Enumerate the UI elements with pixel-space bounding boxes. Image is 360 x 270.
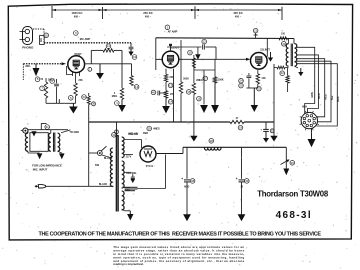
top bus wire B+ bbox=[156, 37, 294, 40]
node 10 bbox=[44, 33, 49, 38]
wire y70 tie bbox=[194, 69, 215, 71]
node 39 bbox=[245, 179, 250, 184]
T2 HV lead to rectifier bbox=[124, 139, 142, 141]
svg-text:13: 13 bbox=[169, 83, 173, 87]
svg-text:33: 33 bbox=[82, 95, 86, 99]
svg-text:250 KC: 250 KC bbox=[143, 11, 152, 15]
ground near mic label bbox=[35, 64, 37, 68]
node 7 bbox=[40, 86, 45, 91]
svg-text:+: + bbox=[236, 177, 238, 181]
avc arrow on grid wire bbox=[197, 47, 199, 54]
small cap arrow bbox=[132, 172, 134, 176]
pickup coil bbox=[25, 133, 28, 151]
wire plate V1 up to resistor R5 bbox=[122, 63, 132, 65]
svg-text:28: 28 bbox=[210, 139, 214, 143]
main mid bus bbox=[89, 121, 230, 123]
dimension tick 4 bbox=[281, 7, 283, 20]
svg-text:26: 26 bbox=[291, 161, 295, 165]
resistor R5 bbox=[130, 76, 133, 86]
V2 grid cap stub bbox=[170, 45, 172, 51]
T3 bottom leads bbox=[295, 66, 299, 68]
svg-text:117V: 117V bbox=[126, 155, 132, 158]
filter cap lead 2 bbox=[241, 147, 243, 179]
speaker cable wire 5 bbox=[297, 64, 338, 126]
resistor R3 in box top bbox=[103, 49, 114, 52]
resistor 250K bbox=[214, 59, 216, 77]
dimension tick 2 bbox=[102, 7, 104, 19]
resistor 12K bbox=[256, 74, 259, 84]
tube socket V5 6L6 bbox=[301, 112, 317, 128]
label AF AMP bbox=[165, 25, 170, 30]
svg-text:17: 17 bbox=[204, 76, 208, 80]
ground G16 bbox=[238, 214, 246, 221]
dimension tick 1 bbox=[51, 6, 53, 18]
volume control jack bbox=[23, 128, 28, 133]
node 26 bbox=[290, 161, 295, 166]
svg-text:100: 100 bbox=[281, 32, 286, 35]
svg-text:+: + bbox=[181, 177, 183, 181]
svg-text:10: 10 bbox=[188, 51, 192, 55]
svg-text:MC AMP: MC AMP bbox=[80, 37, 91, 41]
coupling box bbox=[91, 49, 103, 51]
wire V2 plate down to bus bbox=[173, 69, 175, 122]
node 13 bbox=[168, 83, 173, 88]
svg-text:25K: 25K bbox=[78, 79, 83, 82]
grid shielded lead to V1 bbox=[23, 63, 62, 65]
power switch SW bbox=[97, 151, 102, 156]
ground arrow G9 below bus bbox=[193, 122, 195, 136]
alignment dimension line bbox=[52, 9, 282, 11]
mic input wire bbox=[46, 185, 114, 187]
svg-text:600 ~: 600 ~ bbox=[74, 15, 81, 18]
tube V3 12L8GT bbox=[250, 53, 267, 70]
speaker cable wire 3 bbox=[297, 59, 325, 117]
T1 bottom leads with grounds bbox=[27, 151, 29, 153]
tube V1 6SQ7 bbox=[68, 56, 85, 73]
output transformer T3 bbox=[286, 44, 288, 67]
svg-text:20: 20 bbox=[282, 42, 286, 46]
wire V1 plate to coupling box bbox=[85, 63, 122, 65]
small ground arrow on line bbox=[31, 131, 36, 136]
resistor divider upper bbox=[192, 58, 195, 68]
shield box bbox=[30, 133, 48, 152]
cathode chain V2: resistor 20K bbox=[165, 69, 167, 75]
node 29 bbox=[147, 126, 152, 131]
svg-text:12L8GT: 12L8GT bbox=[260, 48, 270, 52]
resistor R4 4MEG bbox=[120, 88, 123, 100]
svg-text:6SQ7: 6SQ7 bbox=[74, 52, 82, 56]
svg-text:THE COOPERATION OF THE MANUFAC: THE COOPERATION OF THE MANUFACTURER OF T… bbox=[39, 232, 322, 238]
node 31 bbox=[45, 125, 50, 130]
node 9 bbox=[74, 31, 79, 36]
pot output line bbox=[28, 129, 68, 131]
node 16 bbox=[197, 96, 202, 101]
svg-text:250: 250 bbox=[170, 93, 175, 96]
shielded wire from phono bbox=[33, 28, 44, 30]
T1 core bbox=[53, 133, 55, 152]
heater wire loop bbox=[165, 155, 167, 189]
svg-text:22: 22 bbox=[281, 71, 285, 75]
cathode return bus of V1 bbox=[46, 102, 76, 104]
svg-text:16: 16 bbox=[197, 97, 201, 101]
node 30 and 2ND AF label bbox=[112, 133, 117, 138]
shield box label bbox=[40, 36, 45, 45]
ground G3 bbox=[99, 64, 101, 73]
svg-text:15: 15 bbox=[187, 90, 191, 94]
svg-text:455 KC: 455 KC bbox=[233, 11, 242, 15]
svg-text:11: 11 bbox=[107, 44, 110, 48]
power transformer T2 core bbox=[115, 135, 117, 212]
nodes 24 25 bbox=[239, 78, 244, 83]
svg-text:2MEG: 2MEG bbox=[196, 79, 203, 82]
svg-text:31: 31 bbox=[46, 125, 50, 129]
svg-text:1M: 1M bbox=[40, 39, 43, 42]
node 17 bbox=[203, 76, 208, 81]
node 6 bbox=[50, 79, 55, 84]
resistor 2MEG bbox=[193, 55, 195, 83]
svg-text:12: 12 bbox=[203, 40, 207, 44]
bleeder tap right bbox=[285, 147, 287, 168]
T1 top leads bbox=[50, 130, 52, 133]
ground arrow at shield end bbox=[130, 49, 132, 52]
node 38 bbox=[190, 179, 195, 184]
node 12 bbox=[202, 39, 207, 44]
svg-text:25: 25 bbox=[239, 84, 243, 88]
node 8 bbox=[35, 77, 40, 82]
wire bus down to mic line bbox=[88, 105, 90, 187]
T1 primary winding bbox=[49, 133, 51, 151]
svg-text:GRN: GRN bbox=[311, 92, 314, 98]
node 11 on box bbox=[106, 44, 111, 49]
svg-text:RED: RED bbox=[143, 132, 148, 135]
variable tap arrow bbox=[281, 160, 289, 165]
svg-text:10: 10 bbox=[45, 33, 49, 37]
resistor network below: 500K bbox=[180, 40, 182, 82]
resistor R2 25K bbox=[75, 74, 77, 84]
capacitor at shield end bbox=[130, 43, 132, 47]
T1 secondary winding bbox=[58, 133, 60, 151]
svg-text:MIC. INPUT: MIC. INPUT bbox=[33, 167, 48, 171]
node 19 bbox=[238, 125, 243, 130]
wire down to V2 bbox=[155, 38, 157, 70]
svg-text:RED-YEL: RED-YEL bbox=[126, 172, 137, 175]
cap with ground off bus bbox=[265, 122, 267, 129]
ground G6 bbox=[203, 70, 205, 105]
svg-text:reading is impractical.: reading is impractical. bbox=[113, 262, 144, 266]
svg-text:TO GND: TO GND bbox=[69, 131, 79, 134]
coupling capacitor C4 bbox=[167, 46, 202, 48]
tube V2 12J5GT bbox=[162, 51, 179, 68]
svg-text:14: 14 bbox=[169, 100, 173, 104]
node 13a bbox=[134, 85, 139, 90]
svg-text:29: 29 bbox=[148, 127, 152, 131]
speaker cable wire 4 bbox=[297, 61, 331, 122]
bypass caps V2 bbox=[157, 91, 159, 96]
node 15 bbox=[187, 90, 192, 95]
svg-text:21: 21 bbox=[254, 29, 258, 33]
svg-text:MEG: MEG bbox=[112, 95, 118, 98]
svg-text:13: 13 bbox=[135, 85, 139, 89]
svg-text:400 ~: 400 ~ bbox=[235, 15, 242, 18]
T2 primary winding bbox=[110, 148, 112, 187]
svg-text:468-3l: 468-3l bbox=[276, 210, 311, 221]
svg-text:Thordarson T30W08: Thordarson T30W08 bbox=[257, 189, 329, 198]
phono jack J1 bbox=[23, 27, 33, 45]
node 20 screen tap bbox=[282, 42, 287, 47]
svg-text:500K: 500K bbox=[183, 78, 189, 81]
filter choke L1 bbox=[204, 146, 221, 148]
screen arrow node bbox=[270, 52, 272, 58]
wire from bus down to pot line bbox=[41, 124, 46, 130]
ground G15 bbox=[183, 214, 191, 221]
svg-text:40: 40 bbox=[152, 90, 156, 94]
fine print paragraph bbox=[113, 245, 244, 266]
svg-text:BLACK: BLACK bbox=[99, 183, 108, 186]
ground G10 below socket bbox=[311, 129, 313, 139]
corner wire left of V1 bbox=[67, 66, 74, 75]
ground G14 bbox=[129, 211, 131, 214]
node 4 bbox=[115, 101, 120, 106]
svg-text:MIC.: MIC. bbox=[26, 65, 32, 68]
ground arrow under cap bbox=[265, 131, 267, 138]
rectifier tube V4 5Y3G bbox=[140, 146, 156, 162]
ground G4 bbox=[121, 100, 123, 106]
RED-YEL tap bbox=[124, 171, 132, 173]
cathode network V3 bbox=[257, 70, 259, 74]
tube V1 bottom leads bbox=[72, 72, 74, 76]
svg-text:250K: 250K bbox=[218, 78, 224, 81]
svg-text:SW: SW bbox=[95, 163, 100, 167]
svg-text:4MEG: 4MEG bbox=[153, 128, 160, 131]
node 33 bbox=[82, 95, 87, 100]
capacitor C1 bbox=[56, 79, 58, 83]
filter cap lead 1 bbox=[186, 147, 188, 179]
V3 plate lead up to bus bbox=[266, 39, 268, 57]
node 10b bbox=[188, 50, 193, 55]
wire to grid resistor R4 bbox=[121, 64, 123, 88]
ground arrow below onto bus bbox=[270, 136, 277, 142]
resistor R15 near T3 bbox=[274, 67, 277, 69]
svg-text:39: 39 bbox=[245, 179, 249, 183]
T2 bottom lead bbox=[122, 209, 125, 211]
B+ bus bbox=[183, 146, 204, 148]
wire C4 to V3 grid bbox=[215, 47, 217, 59]
diagonal lead from T1 bbox=[61, 130, 71, 133]
ground G17 bbox=[300, 68, 302, 72]
resistor R13 47ohm bbox=[230, 120, 244, 123]
ground G12 bbox=[37, 153, 43, 159]
T2 primary top lead bbox=[116, 122, 118, 135]
ground G5 bbox=[165, 98, 167, 106]
dimension tick 3 bbox=[194, 6, 196, 19]
bypass cap C3 bbox=[248, 73, 250, 75]
resistor R11 bbox=[287, 68, 289, 76]
svg-text:BLK: BLK bbox=[337, 96, 340, 101]
shield stub down bbox=[22, 64, 24, 80]
resistor R1 1MEG bbox=[45, 78, 47, 82]
field resistor on vertical bbox=[88, 93, 90, 96]
svg-text:PHONO: PHONO bbox=[22, 46, 34, 50]
ground G2 bbox=[72, 103, 74, 106]
filament hatch bbox=[125, 186, 138, 188]
grid wire V2 to V3 bbox=[179, 58, 249, 60]
speaker cable wire 2 bbox=[297, 55, 319, 113]
node 27 bbox=[115, 130, 119, 134]
svg-text:400 ~: 400 ~ bbox=[145, 15, 152, 18]
svg-text:34: 34 bbox=[133, 55, 137, 59]
svg-text:12K: 12K bbox=[261, 77, 266, 80]
resistor 100ohm on bus bbox=[279, 37, 288, 40]
node 14 bbox=[168, 99, 173, 104]
T2 secondary windings bbox=[122, 137, 124, 158]
node pin bbox=[88, 68, 92, 72]
svg-text:BLU: BLU bbox=[318, 93, 321, 98]
ground G13 bbox=[59, 153, 65, 159]
ground G11 bbox=[283, 169, 289, 176]
node 5 bbox=[69, 96, 74, 101]
node 23 bbox=[257, 86, 262, 91]
node 21 47K bbox=[253, 28, 258, 33]
svg-text:38: 38 bbox=[191, 179, 195, 183]
svg-text:FOR LOW IMPEDANCE: FOR LOW IMPEDANCE bbox=[32, 164, 62, 168]
node 22 bbox=[280, 71, 285, 76]
svg-text:6L6: 6L6 bbox=[302, 104, 307, 108]
wire V3 right vertical bbox=[273, 64, 275, 136]
top bus corner to T3 bbox=[293, 39, 295, 44]
svg-text:1600 KC: 1600 KC bbox=[71, 11, 82, 15]
RED tap bbox=[124, 187, 130, 189]
V4 output lead bbox=[156, 153, 183, 155]
svg-text:YEL: YEL bbox=[331, 95, 334, 100]
mic plug bbox=[35, 185, 39, 187]
primary bottom to switch bbox=[102, 156, 112, 158]
svg-text:19: 19 bbox=[239, 126, 243, 130]
speaker cable wire 1 bbox=[297, 47, 315, 113]
svg-text:YELLOW: YELLOW bbox=[128, 133, 139, 136]
svg-text:AF AMP: AF AMP bbox=[168, 29, 178, 33]
ground G8 bbox=[253, 88, 255, 105]
resistor 250 ohm V2 bbox=[165, 82, 167, 91]
ground G7 bbox=[214, 83, 216, 105]
node 28 bbox=[209, 139, 214, 144]
